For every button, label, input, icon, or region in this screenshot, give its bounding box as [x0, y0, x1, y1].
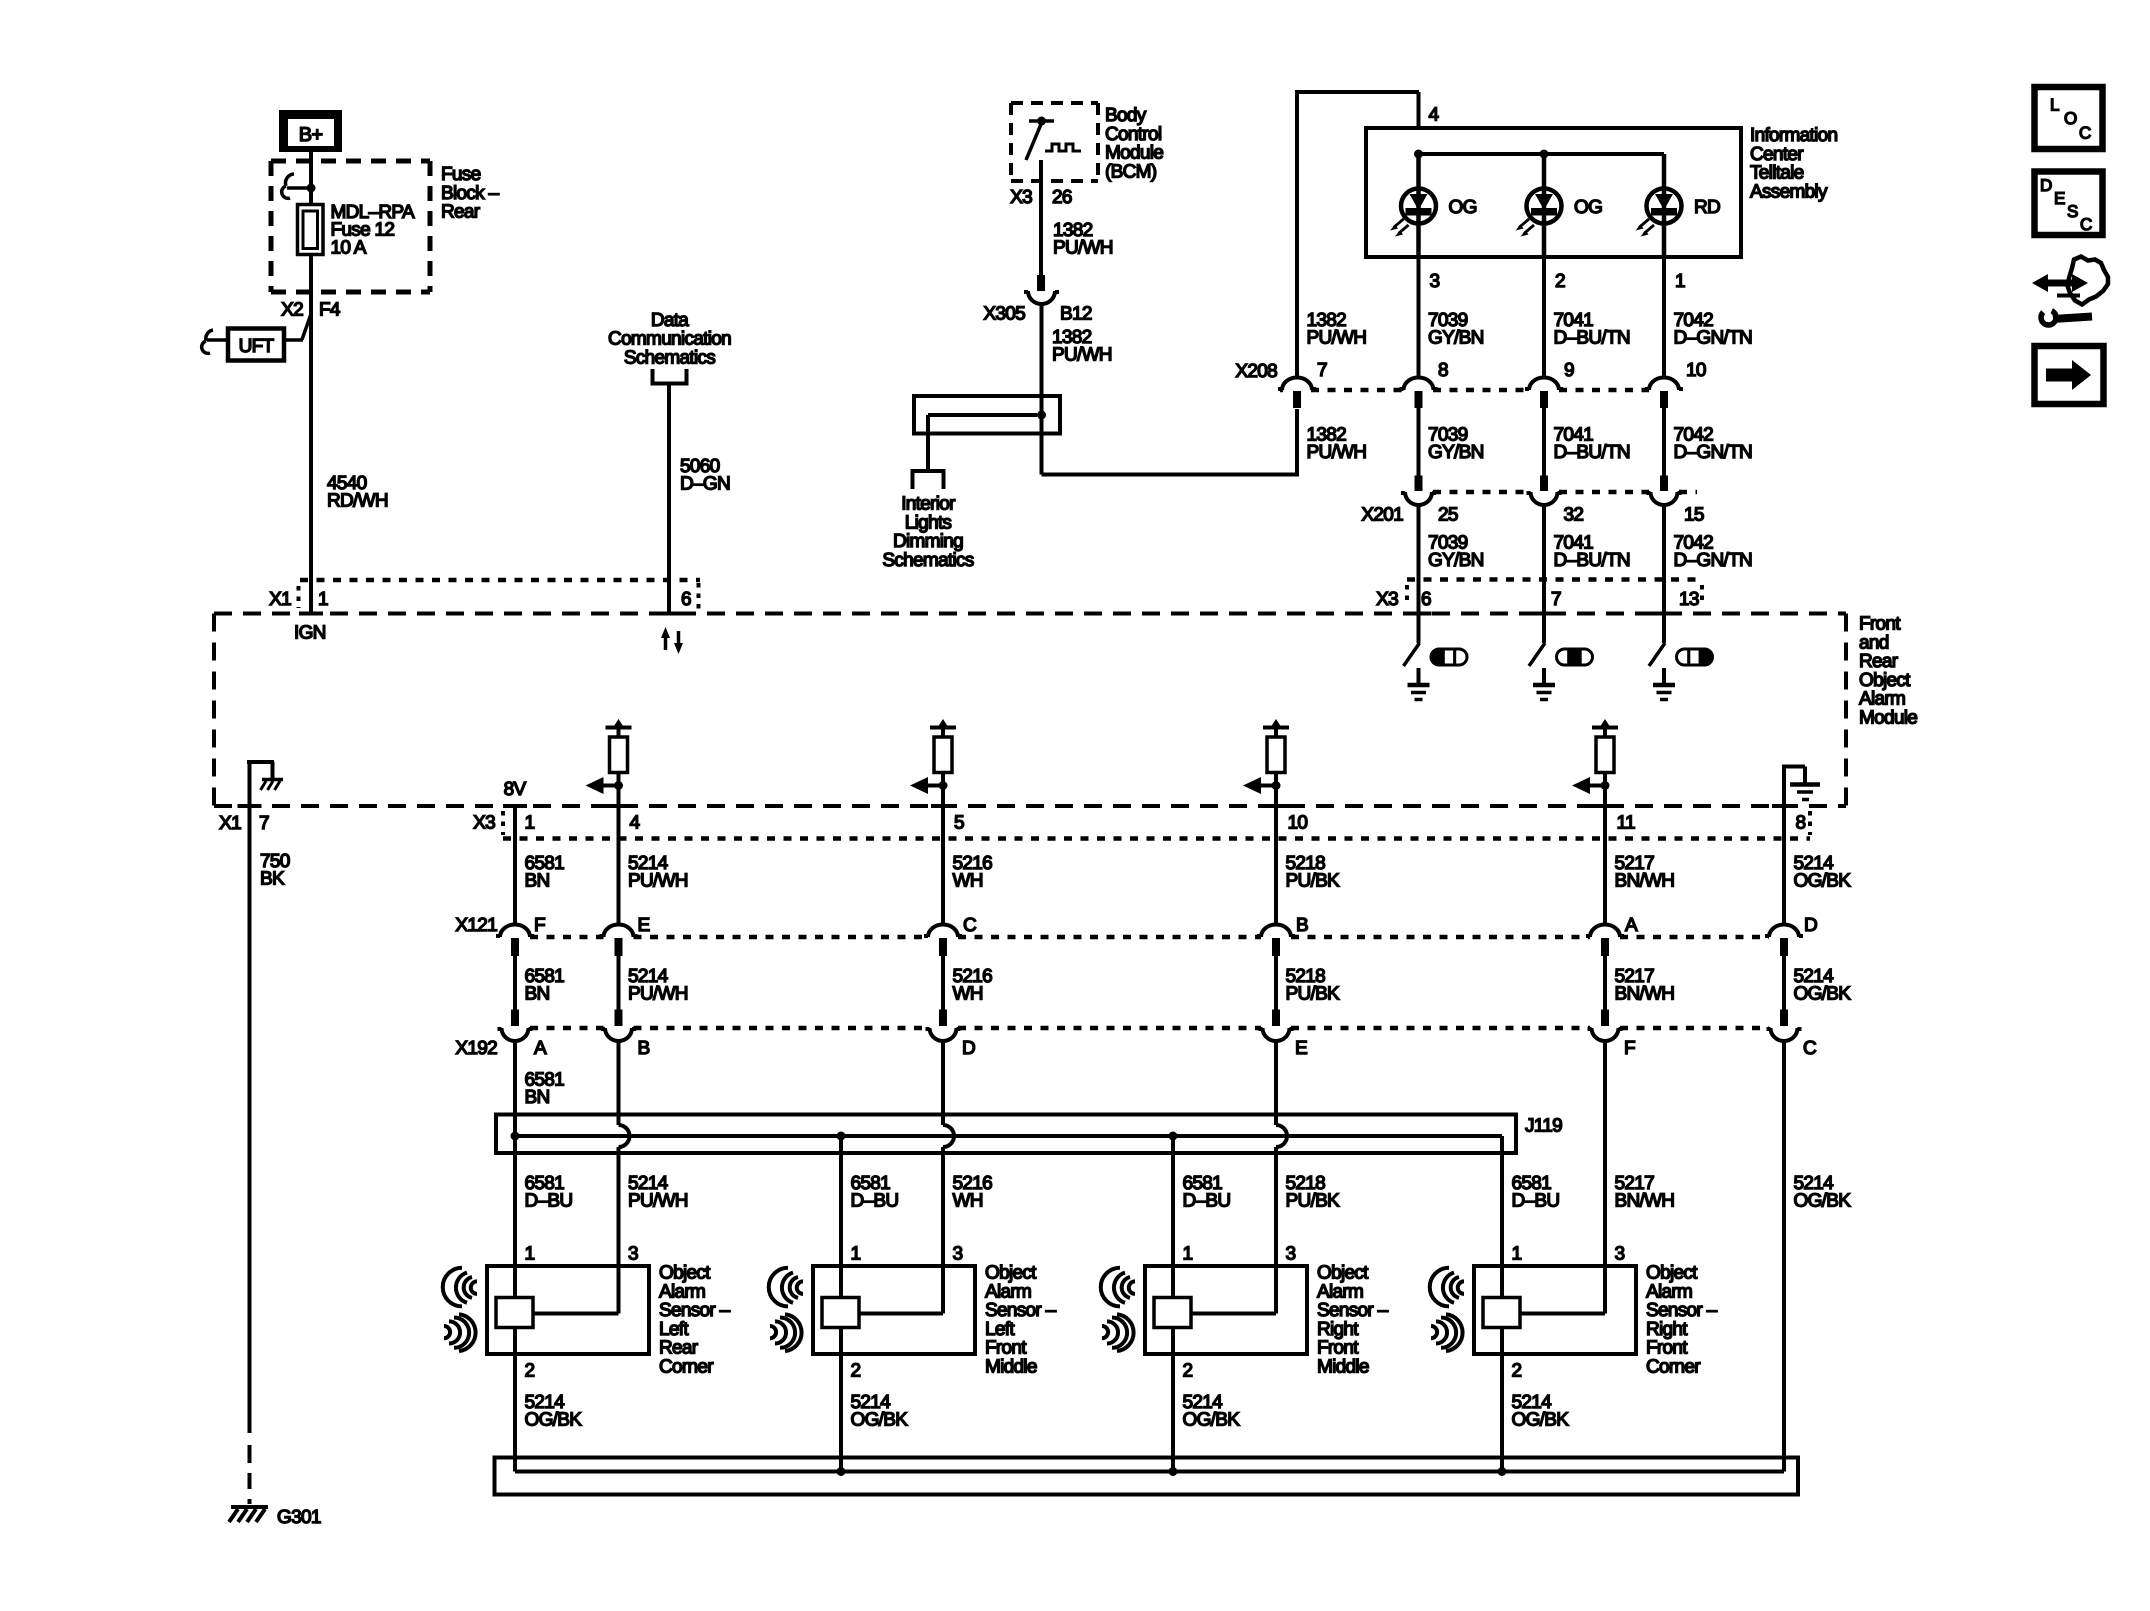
UFT module box	[228, 329, 284, 361]
svg-text:8V: 8V	[504, 779, 527, 800]
wire X121 column 2 to X192	[617, 956, 621, 1010]
wire X201-25 down	[1417, 505, 1421, 614]
svg-text:8: 8	[1796, 813, 1806, 834]
svg-text:PU/WH: PU/WH	[1307, 442, 1367, 463]
svg-text:C: C	[2079, 124, 2091, 143]
svg-text:7: 7	[1551, 589, 1561, 610]
svg-text:D: D	[2040, 176, 2052, 195]
LED indicator OG 1	[1416, 154, 1421, 257]
icon DESC box	[2035, 172, 2103, 236]
svg-text:Corner: Corner	[1646, 1357, 1701, 1378]
svg-text:3: 3	[953, 1244, 963, 1265]
connector row X121 dotted	[530, 935, 604, 940]
svg-text:D–GN/TN: D–GN/TN	[1674, 550, 1753, 571]
svg-text:13: 13	[1679, 589, 1699, 610]
svg-text:BN: BN	[525, 871, 550, 892]
object alarm sensor 1 pin 2 wire	[513, 1328, 517, 1472]
svg-text:D–GN/TN: D–GN/TN	[1674, 442, 1753, 463]
object alarm sensor 3 transducer square	[1154, 1298, 1191, 1328]
telltale driver switch 2 with indicator and ground	[1542, 614, 1546, 644]
svg-text:D–BU: D–BU	[851, 1191, 899, 1212]
svg-text:E: E	[1295, 1038, 1307, 1059]
svg-text:9: 9	[1564, 360, 1574, 381]
svg-text:BK: BK	[260, 869, 285, 890]
wire X192-A to splice and sensor 1 pin 1	[513, 1050, 517, 1298]
front and rear object alarm module dashed box	[214, 612, 1846, 616]
svg-text:A: A	[534, 1038, 547, 1059]
object alarm sensor 2 box	[813, 1266, 975, 1354]
svg-text:C: C	[1803, 1038, 1816, 1059]
connector X201 pin 25	[1415, 476, 1423, 492]
svg-text:X208: X208	[1235, 361, 1277, 382]
svg-text:PU/BK: PU/BK	[1286, 871, 1341, 892]
svg-text:PU/BK: PU/BK	[1286, 984, 1341, 1005]
object alarm sensor 1 box	[487, 1266, 649, 1354]
object alarm sensor 4 pin 2 wire	[1500, 1328, 1504, 1472]
svg-text:Module: Module	[1859, 708, 1917, 729]
svg-text:3: 3	[1286, 1244, 1296, 1265]
wire to interior lights bracket	[926, 415, 930, 471]
svg-text:X3: X3	[1010, 187, 1032, 208]
svg-text:PU/BK: PU/BK	[1286, 1191, 1341, 1212]
svg-text:OG/BK: OG/BK	[525, 1410, 583, 1431]
svg-text:B: B	[638, 1038, 650, 1059]
svg-text:WH: WH	[953, 871, 983, 892]
svg-text:1: 1	[525, 1244, 535, 1265]
wire splice to sensor 3 pin 1	[1171, 1136, 1175, 1298]
svg-text:C: C	[2080, 215, 2092, 234]
svg-text:GY/BN: GY/BN	[1428, 550, 1484, 571]
svg-text:X2: X2	[281, 300, 303, 321]
svg-text:D–GN: D–GN	[680, 474, 730, 495]
wire BCM X3-26	[1039, 160, 1043, 275]
svg-text:D–BU/TN: D–BU/TN	[1554, 550, 1630, 571]
svg-text:O: O	[2064, 109, 2077, 128]
wire fuse to X1-1	[309, 255, 313, 614]
svg-text:32: 32	[1564, 505, 1584, 526]
wire X208-9 to X201-32	[1542, 408, 1546, 476]
svg-text:PU/WH: PU/WH	[628, 1191, 688, 1212]
svg-text:Assembly: Assembly	[1750, 181, 1828, 202]
wire X121 column 5 to X192	[1603, 956, 1607, 1010]
svg-text:X192: X192	[455, 1038, 497, 1059]
object alarm sensor 2 transducer square	[822, 1298, 859, 1328]
svg-text:3: 3	[1430, 271, 1440, 292]
svg-text:D: D	[962, 1038, 975, 1059]
svg-text:10: 10	[1686, 360, 1706, 381]
svg-text:Middle: Middle	[1317, 1357, 1369, 1378]
svg-text:OG: OG	[1449, 197, 1477, 218]
connector row X3 module dotted	[503, 836, 1810, 841]
svg-text:26: 26	[1052, 187, 1072, 208]
svg-text:Schematics: Schematics	[624, 347, 715, 368]
svg-text:OG: OG	[1574, 197, 1602, 218]
svg-text:IGN: IGN	[294, 623, 326, 644]
svg-text:15: 15	[1684, 505, 1704, 526]
pull-up resistor feed X3-10	[1271, 719, 1282, 728]
wire X192-C to bottom splice	[1782, 1050, 1786, 1472]
svg-text:8: 8	[1438, 360, 1448, 381]
svg-text:Middle: Middle	[985, 1357, 1037, 1378]
wire X121 column 1 to X192	[513, 956, 517, 1010]
telltale driver switch 3 with indicator and ground	[1662, 614, 1666, 644]
wire X3 column 2 to X121	[607, 804, 631, 808]
wire X121 column 6 to X192	[1782, 956, 1786, 1010]
LED indicator RD	[1662, 154, 1667, 257]
svg-text:(BCM): (BCM)	[1105, 161, 1157, 182]
object alarm sensor 1 internal link	[533, 1312, 619, 1316]
data link arrows	[664, 634, 668, 650]
wire end tick X1-6	[657, 612, 681, 616]
svg-text:BN: BN	[525, 984, 550, 1005]
wire splice to sensor 4 pin 1	[1500, 1153, 1504, 1298]
svg-text:OG/BK: OG/BK	[1794, 984, 1852, 1005]
wire telltale 3 to X208-8	[1417, 257, 1421, 378]
svg-text:7: 7	[1317, 360, 1327, 381]
splice pack J119 box	[496, 1115, 1516, 1154]
svg-text:4: 4	[630, 813, 641, 834]
svg-text:1: 1	[1512, 1244, 1522, 1265]
wire B+ to fuse block	[309, 152, 313, 204]
connector row X192 dotted	[530, 1026, 604, 1031]
wire telltale 2 to X208-9	[1542, 257, 1546, 378]
wire X305 down	[1040, 304, 1044, 475]
svg-text:F: F	[534, 915, 545, 936]
connector row X3 telltale-side dotted	[1407, 577, 1702, 582]
wire UFT tap diagonal	[302, 314, 311, 340]
object alarm sensor 2 pin 2 wire	[839, 1328, 843, 1472]
ground G301	[231, 1505, 268, 1509]
svg-text:OG/BK: OG/BK	[1794, 1191, 1852, 1212]
wire X208-8 to X201-25	[1417, 408, 1421, 476]
svg-text:PU/WH: PU/WH	[1053, 238, 1113, 259]
wire 1382 horizontal run	[1042, 473, 1298, 477]
svg-text:WH: WH	[953, 1191, 983, 1212]
svg-text:Corner: Corner	[659, 1357, 714, 1378]
terminal clip at fuse input	[285, 174, 294, 186]
wire X192-B hop over bus to sensor 1 pin 3	[617, 1050, 621, 1125]
wire X121 column 4 to X192	[1274, 956, 1278, 1010]
object alarm sensor 4 internal link	[1520, 1312, 1605, 1316]
svg-text:X1: X1	[269, 589, 291, 610]
svg-text:D–BU/TN: D–BU/TN	[1554, 442, 1630, 463]
svg-text:F4: F4	[319, 300, 341, 321]
object alarm sensor 4 transducer square	[1483, 1298, 1520, 1328]
svg-text:X3: X3	[1376, 589, 1398, 610]
svg-text:X121: X121	[455, 915, 497, 936]
svg-text:10 A: 10 A	[331, 237, 367, 258]
wire X1-7 ground lead	[248, 806, 252, 1433]
icon harness repair	[2045, 280, 2075, 287]
svg-text:B12: B12	[1060, 304, 1092, 325]
svg-text:B+: B+	[299, 124, 323, 146]
connector X208 pin 7	[1293, 391, 1301, 408]
icon continue arrow box	[2035, 346, 2104, 404]
svg-text:RD: RD	[1694, 197, 1720, 218]
wire X201-32 down	[1542, 505, 1546, 614]
wire X201-15 down	[1662, 505, 1666, 614]
svg-text:E: E	[638, 915, 650, 936]
connector X305 B12	[1037, 275, 1045, 291]
svg-text:A: A	[1625, 915, 1638, 936]
interior lights dimming tap box	[914, 396, 1060, 434]
svg-text:PU/WH: PU/WH	[1307, 328, 1367, 349]
connector row X201 dotted	[1433, 490, 1529, 495]
battery terminal B+	[279, 110, 342, 152]
wire X192-D hop over bus to sensor 2 pin 3	[941, 1050, 945, 1125]
svg-text:GY/BN: GY/BN	[1428, 328, 1484, 349]
svg-text:F: F	[1624, 1038, 1635, 1059]
pull-up resistor feed X3-5	[938, 719, 949, 728]
svg-text:RD/WH: RD/WH	[327, 491, 388, 512]
bottom splice box	[495, 1458, 1799, 1495]
svg-text:D–GN/TN: D–GN/TN	[1674, 328, 1753, 349]
svg-text:PU/WH: PU/WH	[628, 984, 688, 1005]
connector row X208 dotted	[1280, 388, 1283, 393]
wire data comm to X1-6	[667, 386, 671, 614]
svg-text:7: 7	[259, 813, 269, 834]
fuse block rear dashed box	[271, 159, 430, 164]
svg-text:L: L	[2050, 96, 2059, 115]
object alarm sensor 4 sound waves	[1430, 1268, 1449, 1307]
svg-text:S: S	[2067, 202, 2078, 221]
information center telltale assembly box	[1366, 128, 1741, 257]
svg-text:BN: BN	[525, 1087, 550, 1108]
telltale driver switch 1 with indicator and ground	[1417, 614, 1421, 644]
wire X3 column 1 to X121	[503, 804, 527, 808]
svg-text:OG/BK: OG/BK	[1512, 1410, 1570, 1431]
wire telltale 1 to X208-10	[1662, 257, 1666, 378]
svg-text:1: 1	[525, 813, 535, 834]
wire X208-7 up	[1295, 92, 1299, 378]
object alarm sensor 2 internal link	[859, 1312, 943, 1316]
svg-text:X201: X201	[1361, 505, 1403, 526]
pull-up resistor feed X3-11	[1600, 719, 1611, 728]
svg-text:PU/WH: PU/WH	[1052, 345, 1112, 366]
svg-text:D–BU: D–BU	[525, 1191, 573, 1212]
wire X3 column 5 to X121	[1593, 804, 1617, 808]
svg-text:B: B	[1296, 915, 1308, 936]
object alarm sensor 4 box	[1474, 1266, 1636, 1354]
svg-text:D–BU: D–BU	[1183, 1191, 1231, 1212]
svg-text:BN/WH: BN/WH	[1615, 984, 1675, 1005]
wire end tick X1-1	[299, 612, 323, 616]
svg-text:GY/BN: GY/BN	[1428, 442, 1484, 463]
fuse MDL-RPA Fuse 12 10A	[298, 205, 324, 255]
svg-text:1: 1	[318, 589, 328, 610]
svg-text:D–BU/TN: D–BU/TN	[1554, 328, 1630, 349]
J119 bus line	[515, 1134, 1502, 1138]
svg-text:WH: WH	[953, 984, 983, 1005]
icon LOC box	[2035, 87, 2103, 149]
object alarm sensor 3 box	[1145, 1266, 1307, 1354]
module internal ground at X3-8	[1782, 768, 1786, 806]
svg-text:5: 5	[954, 813, 964, 834]
wire X192-E hop over bus to sensor 3 pin 3	[1274, 1050, 1278, 1125]
svg-text:X3: X3	[473, 813, 495, 834]
svg-text:G301: G301	[277, 1507, 321, 1528]
svg-text:1: 1	[1675, 271, 1685, 292]
connector X201 pin 32	[1540, 476, 1548, 492]
wire splice to sensor 2 pin 1	[839, 1136, 843, 1298]
module internal ground at X1-7	[248, 763, 252, 806]
telltale internal bus	[1419, 152, 1665, 156]
svg-text:OG/BK: OG/BK	[851, 1410, 909, 1431]
svg-text:X305: X305	[983, 304, 1025, 325]
connector X208 pin 9	[1529, 378, 1559, 391]
svg-text:2: 2	[851, 1361, 861, 1382]
svg-text:C: C	[963, 915, 976, 936]
svg-text:2: 2	[1512, 1361, 1522, 1382]
svg-text:D: D	[1804, 915, 1817, 936]
svg-text:4: 4	[1429, 105, 1440, 126]
svg-text:OG/BK: OG/BK	[1794, 871, 1852, 892]
svg-text:Rear: Rear	[441, 202, 481, 223]
object alarm sensor 2 sound waves	[769, 1268, 788, 1307]
object alarm sensor 1 transducer square	[496, 1298, 533, 1328]
svg-text:3: 3	[628, 1244, 638, 1265]
terminal clip at UFT	[206, 330, 213, 341]
svg-text:6: 6	[681, 589, 691, 610]
wire X3 column 4 to X121	[1264, 804, 1288, 808]
wire X121 column 3 to X192	[941, 956, 945, 1010]
svg-text:X1: X1	[219, 813, 241, 834]
svg-text:D–BU: D–BU	[1512, 1191, 1560, 1212]
svg-text:UFT: UFT	[239, 336, 275, 357]
svg-text:E: E	[2054, 189, 2065, 208]
svg-text:J119: J119	[1525, 1116, 1562, 1137]
svg-text:2: 2	[1183, 1361, 1193, 1382]
wire X3 column 6 to X121	[1772, 804, 1796, 808]
svg-text:BN/WH: BN/WH	[1615, 1191, 1675, 1212]
wire X3 column 3 to X121	[931, 804, 955, 808]
svg-text:6: 6	[1421, 589, 1431, 610]
connector X201 pin 15	[1660, 476, 1668, 492]
svg-text:2: 2	[1555, 271, 1565, 292]
wire X208-10 to X201-15	[1662, 408, 1666, 476]
object alarm sensor 3 sound waves	[1101, 1268, 1120, 1307]
svg-text:BN/WH: BN/WH	[1615, 871, 1675, 892]
svg-text:PU/WH: PU/WH	[628, 871, 688, 892]
svg-text:25: 25	[1438, 505, 1458, 526]
svg-text:10: 10	[1288, 813, 1308, 834]
svg-text:OG/BK: OG/BK	[1183, 1410, 1241, 1431]
connector X208 pin 8	[1404, 378, 1434, 391]
pull-up resistor feed X3-4	[613, 719, 624, 728]
svg-text:Schematics: Schematics	[882, 550, 973, 571]
svg-text:3: 3	[1615, 1244, 1625, 1265]
wire X192-F to sensor 4 pin 3	[1603, 1050, 1607, 1314]
wire telltale pin 4 drop	[1417, 92, 1421, 128]
connector row X1 dotted	[300, 578, 700, 583]
BCM internal driver switch	[1029, 119, 1054, 123]
connector X208 pin 10	[1649, 378, 1679, 391]
LED indicator OG 2	[1542, 154, 1547, 257]
svg-text:1: 1	[851, 1244, 861, 1265]
object alarm sensor 1 sound waves	[443, 1268, 462, 1307]
svg-text:1: 1	[1183, 1244, 1193, 1265]
body control module BCM dashed box	[1011, 101, 1098, 105]
object alarm sensor 3 internal link	[1191, 1312, 1276, 1316]
object alarm sensor 3 pin 2 wire	[1171, 1328, 1175, 1472]
svg-text:2: 2	[525, 1361, 535, 1382]
bottom splice bus line	[515, 1470, 1784, 1474]
svg-text:11: 11	[1617, 813, 1635, 834]
wire X1-7 dashed section	[248, 1445, 252, 1463]
wire top horizontal to telltale pin 4	[1295, 90, 1419, 94]
